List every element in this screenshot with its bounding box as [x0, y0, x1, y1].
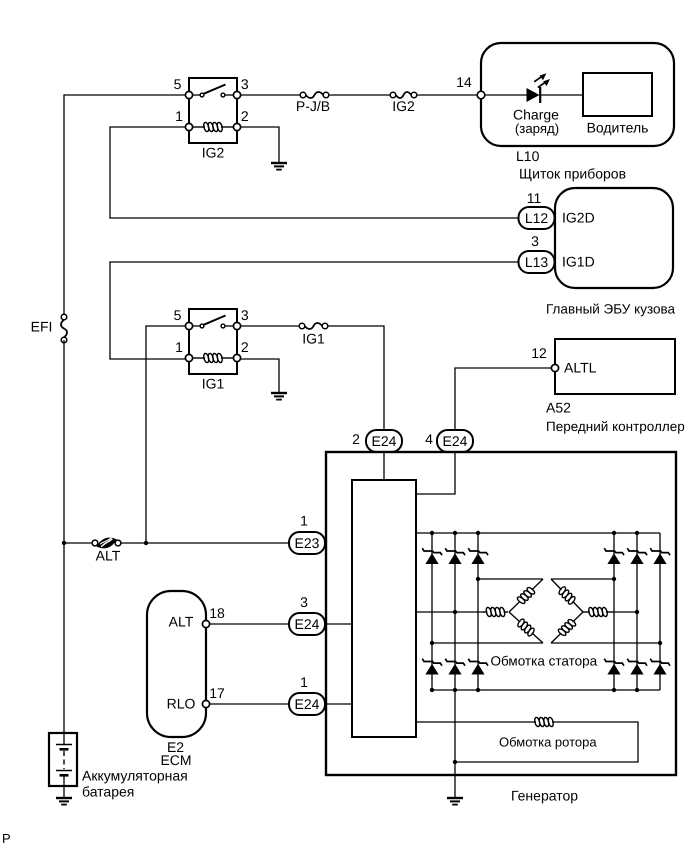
wire: left vertical bus x=64 upper: [63, 94, 65, 317]
label Передний контроллер: [546, 419, 685, 434]
wire: battery+ feed, top horizontal: [64, 94, 186, 96]
svg-text:RLO: RLO: [167, 696, 196, 712]
wire: between fuses: [329, 94, 390, 96]
junction x=146: [144, 541, 148, 545]
junction bottom bus x=637: [635, 688, 639, 692]
ground (IG2 relay coil): [271, 163, 287, 170]
junction bottom bus x=478: [476, 688, 480, 692]
diode lower x=637: [627, 659, 647, 675]
wire: ALT pin to E24 pin3: [210, 623, 290, 625]
svg-text:1: 1: [175, 108, 183, 124]
label A52: [546, 400, 571, 416]
svg-text:2: 2: [241, 339, 249, 355]
svg-text:E24: E24: [443, 433, 468, 449]
stator coil right lower diagonal: [548, 609, 587, 647]
svg-text:Щиток приборов: Щиток приборов: [519, 166, 626, 182]
rectifier bottom bus: [432, 689, 660, 691]
wire: left vertical bus x=64 lower: [63, 340, 65, 543]
svg-text:IG1: IG1: [202, 376, 225, 392]
connector E24 pin4: [425, 430, 473, 452]
rectifier column x=637: [636, 533, 638, 690]
rotor winding top lead: [416, 721, 534, 723]
wire: ALTL to E24 pin4: [455, 368, 551, 430]
svg-text:4: 4: [425, 431, 433, 447]
svg-text:17: 17: [209, 685, 225, 701]
stator row3 left: [430, 641, 543, 645]
fuse EFI: [31, 314, 67, 343]
svg-text:Генератор: Генератор: [511, 788, 578, 804]
wire: IG1 pin3 to fuse IG1: [241, 325, 300, 327]
svg-text:P-J/B: P-J/B: [296, 98, 330, 114]
connector E23 pin1: [289, 513, 325, 555]
label IG1D: [562, 254, 595, 270]
wire: x=64 down to battery: [63, 543, 65, 733]
connector E24 pin3: [289, 594, 325, 635]
svg-text:E23: E23: [295, 535, 320, 551]
junction top bus x=637: [635, 531, 639, 535]
wire: junction to ALT fusible link: [64, 542, 92, 544]
wire: E24 pin2 into regulator: [383, 452, 385, 480]
pin 12 ALTL: [531, 345, 558, 372]
svg-text:5: 5: [174, 76, 182, 92]
junction top bus x=478: [476, 531, 480, 535]
svg-text:2: 2: [241, 108, 249, 124]
wire: E24 pin4 into regulator: [416, 452, 455, 494]
rotor coil: [534, 717, 554, 727]
label ALT (ECM): [169, 614, 194, 630]
wire: E24 pin3 to regulator: [325, 623, 352, 625]
stator coil right upper diagonal: [548, 576, 587, 616]
svg-text:P: P: [2, 831, 11, 846]
page mark P: [2, 831, 11, 846]
svg-text:EFI: EFI: [31, 319, 53, 335]
svg-text:18: 18: [209, 605, 225, 621]
wire: node to E23: [146, 542, 289, 544]
stator row2 right lead: [613, 610, 639, 614]
svg-text:L13: L13: [525, 254, 549, 270]
connector E24 pin1: [289, 674, 325, 715]
label Аккумуляторная батарея: [82, 768, 188, 800]
svg-text:E24: E24: [295, 696, 320, 712]
svg-text:L10: L10: [516, 148, 540, 164]
svg-text:A52: A52: [546, 400, 571, 416]
junction bottom bus x=432: [430, 688, 434, 692]
fuse P-J/B: [296, 92, 330, 114]
svg-text:IG2: IG2: [202, 145, 225, 161]
svg-text:IG2: IG2: [392, 98, 415, 114]
wire: IG1 pin2 to ground: [241, 359, 280, 393]
junction bottom bus x=614: [612, 688, 616, 692]
rectifier column x=660: [659, 533, 661, 690]
fuse IG2: [390, 92, 417, 114]
svg-text:L12: L12: [525, 210, 549, 226]
svg-text:3: 3: [241, 76, 249, 92]
instrument panel box L10: [481, 43, 674, 146]
wire: LED to meter box: [541, 94, 583, 96]
svg-text:5: 5: [174, 307, 182, 323]
svg-text:11: 11: [527, 190, 542, 206]
stator coil left horizontal: [483, 607, 508, 617]
svg-text:12: 12: [531, 345, 547, 361]
node 14: [456, 74, 485, 99]
junction bottom bus x=455: [453, 688, 457, 692]
diode lower x=478: [468, 659, 488, 675]
wire: rotor column to ground: [454, 690, 456, 798]
svg-text:3: 3: [300, 594, 308, 610]
main body ECU box: [555, 188, 673, 288]
pin 17: [202, 685, 225, 708]
battery box: [49, 733, 77, 786]
diode lower x=660: [650, 659, 670, 675]
svg-text:ALT: ALT: [169, 614, 194, 630]
LED charge lamp: [527, 73, 551, 103]
stator row3 right: [551, 641, 662, 645]
svg-text:(заряд): (заряд): [515, 121, 559, 136]
svg-text:Аккумуляторная: Аккумуляторная: [82, 768, 188, 784]
generator box: [326, 452, 676, 775]
wire: fuse IG2 to node 14: [417, 94, 481, 96]
junction rotor ground: [453, 760, 457, 764]
diode upper x=660: [650, 548, 670, 564]
driver display box: [583, 73, 652, 116]
stator row1 left: [476, 577, 543, 581]
diode upper x=432: [422, 548, 442, 564]
connector L12: [519, 190, 555, 229]
junction top bus x=614: [612, 531, 616, 535]
label Генератор: [511, 788, 578, 804]
svg-text:IG1: IG1: [302, 331, 325, 347]
rotor wire right: [455, 722, 638, 762]
stator coil right horizontal: [583, 607, 613, 617]
junction top bus x=455: [453, 531, 457, 535]
diode upper x=637: [627, 548, 647, 564]
rectifier column x=432: [431, 533, 433, 690]
svg-text:1: 1: [175, 339, 183, 355]
connector E24 pin2: [352, 430, 402, 452]
rectifier column x=455: [454, 533, 456, 690]
svg-text:Главный ЭБУ кузова: Главный ЭБУ кузова: [546, 302, 676, 317]
svg-text:Обмотка ротора: Обмотка ротора: [499, 735, 597, 750]
connector L13: [519, 233, 555, 273]
stator row2 left lead: [416, 610, 484, 614]
label Charge: [513, 107, 559, 137]
svg-text:E24: E24: [372, 433, 397, 449]
svg-text:1: 1: [300, 674, 308, 690]
diode upper x=455: [445, 548, 465, 564]
rectifier top bus: [416, 532, 660, 534]
fuse IG1: [299, 323, 328, 347]
svg-text:Водитель: Водитель: [587, 120, 649, 136]
stator coil left lower diagonal: [506, 608, 546, 646]
wire: fusible link to node x=146: [121, 542, 146, 544]
diode lower x=432: [422, 659, 442, 675]
svg-text:ALTL: ALTL: [564, 360, 597, 376]
wire: IG2 pin3 to fuse P-J/B: [241, 94, 301, 96]
svg-text:E24: E24: [295, 616, 320, 632]
wire: node14 to LED: [485, 94, 527, 96]
label IG2D: [562, 210, 595, 226]
label RLO (ECM): [167, 696, 196, 712]
front controller box A52: [555, 339, 675, 394]
ALT fuse line junction at x=64: [62, 541, 66, 545]
svg-text:2: 2: [352, 431, 360, 447]
label ALTL: [564, 360, 597, 376]
stator row1 right: [551, 577, 616, 581]
wire: E24 pin1 to regulator: [325, 703, 352, 705]
fusible link ALT: [92, 538, 121, 564]
diode upper x=614: [604, 548, 624, 564]
label Щиток приборов: [519, 166, 626, 182]
label Обмотка статора: [491, 654, 598, 669]
svg-text:IG1D: IG1D: [562, 254, 595, 270]
wire: IG2 pin2 to ground: [241, 127, 280, 163]
label E2 ECM: [160, 739, 191, 768]
svg-text:14: 14: [456, 74, 472, 90]
relay IG1: [174, 307, 249, 392]
diode lower x=614: [604, 659, 624, 675]
ground (generator): [447, 798, 463, 805]
svg-text:Обмотка статора: Обмотка статора: [491, 654, 598, 669]
svg-text:ALT: ALT: [96, 548, 121, 564]
wire: RLO pin to E24 pin1: [210, 703, 290, 705]
diode upper x=478: [468, 548, 488, 564]
pin 18: [202, 605, 225, 628]
ground (IG1 relay coil): [271, 393, 287, 400]
wire: IG2 pin1 to L12: [110, 127, 519, 218]
voltage regulator box: [352, 480, 416, 737]
stator coil left upper diagonal: [506, 576, 547, 616]
relay IG2: [174, 76, 249, 161]
label Обмотка ротора: [499, 735, 597, 750]
svg-text:3: 3: [531, 233, 539, 249]
label Главный ЭБУ кузова: [546, 302, 676, 317]
junction top bus x=432: [430, 531, 434, 535]
rectifier column x=478: [477, 533, 479, 690]
svg-text:1: 1: [300, 513, 308, 529]
svg-text:3: 3: [241, 307, 249, 323]
label L10: [516, 148, 540, 164]
battery cells: [56, 733, 72, 798]
svg-text:ECM: ECM: [160, 752, 191, 768]
wire: IG1 pin5 to ALT node: [146, 326, 186, 543]
ground (battery): [56, 798, 72, 805]
svg-text:батарея: батарея: [82, 784, 134, 800]
rectifier column x=614: [613, 533, 615, 690]
wire: fuse IG1 to E24 pin2: [328, 326, 384, 430]
diode lower x=455: [445, 659, 465, 675]
wire: L13 to IG1 pin1: [110, 262, 519, 359]
svg-text:IG2D: IG2D: [562, 210, 595, 226]
ECM box: [147, 591, 206, 737]
label Водитель: [587, 120, 649, 136]
svg-text:Передний контроллер: Передний контроллер: [546, 419, 685, 434]
